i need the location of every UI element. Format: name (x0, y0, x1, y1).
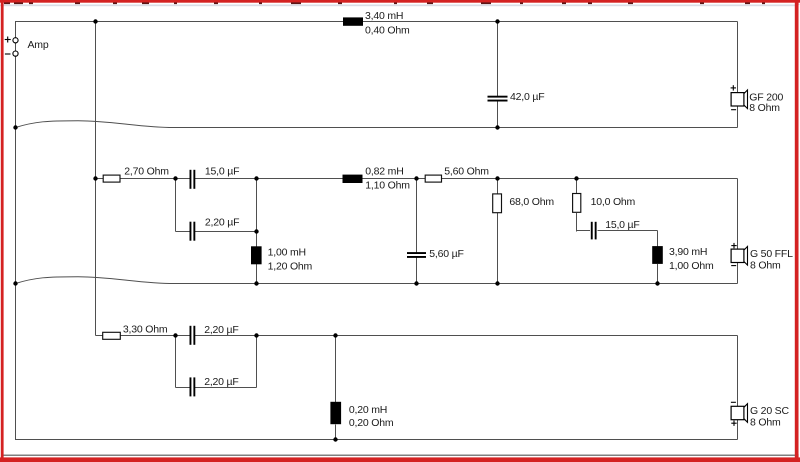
svg-text:2,20 µF: 2,20 µF (204, 376, 238, 388)
svg-text:5,60 µF: 5,60 µF (429, 248, 463, 260)
svg-text:2,20 µF: 2,20 µF (204, 324, 238, 336)
svg-text:G 50 FFL: G 50 FFL (750, 248, 793, 260)
svg-text:0,20 mH: 0,20 mH (349, 404, 387, 416)
svg-text:8 Ohm: 8 Ohm (750, 417, 781, 429)
svg-text:0,82 mH: 0,82 mH (365, 165, 403, 177)
svg-text:68,0 Ohm: 68,0 Ohm (509, 196, 554, 208)
svg-text:1,00 mH: 1,00 mH (268, 247, 306, 259)
svg-text:15,0 µF: 15,0 µF (605, 219, 639, 231)
svg-text:15,0 µF: 15,0 µF (205, 166, 239, 178)
svg-text:10,0 Ohm: 10,0 Ohm (591, 196, 636, 208)
svg-text:Amp: Amp (28, 39, 49, 51)
svg-text:8 Ohm: 8 Ohm (750, 260, 781, 272)
svg-text:5,60 Ohm: 5,60 Ohm (444, 165, 489, 177)
svg-text:3,90 mH: 3,90 mH (669, 246, 707, 258)
svg-text:1,00 Ohm: 1,00 Ohm (669, 260, 714, 272)
svg-text:2,70 Ohm: 2,70 Ohm (124, 166, 169, 178)
svg-text:42,0 µF: 42,0 µF (510, 91, 544, 103)
svg-text:0,40 Ohm: 0,40 Ohm (365, 24, 410, 36)
svg-text:3,40 mH: 3,40 mH (365, 10, 403, 22)
svg-text:0,20 Ohm: 0,20 Ohm (349, 417, 394, 429)
svg-text:8 Ohm: 8 Ohm (749, 102, 780, 114)
svg-text:1,20 Ohm: 1,20 Ohm (268, 260, 313, 272)
svg-text:2,20 µF: 2,20 µF (205, 217, 239, 229)
svg-text:G 20 SC: G 20 SC (750, 405, 789, 417)
svg-text:3,30 Ohm: 3,30 Ohm (123, 323, 168, 335)
svg-text:1,10 Ohm: 1,10 Ohm (365, 180, 410, 192)
